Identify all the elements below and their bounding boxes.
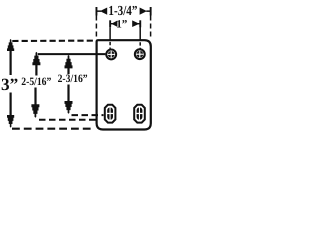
hole H2 (top-right bolt hole) [135,49,145,59]
dimension 1" : right tick [139,20,141,27]
dimension 2-3/16" : bottom reference dashed line to slot S1 [72,114,104,116]
plate outline [97,40,151,129]
extension line from 1" right tick down to hole H2 [139,25,141,49]
dimension 3" : down arrowhead [7,115,14,128]
dimension 1-3/4" : right arrowhead [140,8,147,15]
dimension 2-5/16" : down arrowhead [31,104,39,117]
dimension 3" : upper shaft [10,51,12,76]
dimension 1" : left tick [109,20,111,27]
dimension 1-3/4" : left tick [96,7,98,16]
svg-text:2-3/16”: 2-3/16” [58,73,88,85]
dimension 2-5/16" : upper shaft [35,65,37,76]
dimension 3" : lower shaft [10,93,12,116]
svg-text:1-3/4”: 1-3/4” [108,3,137,18]
dimension 3" : top reference dashed line (plate top extension) [12,40,96,43]
dimension 2-3/16" : up arrowhead [65,55,73,68]
svg-text:3”: 3” [1,75,18,94]
dimension 1-3/4" : line stub right [146,10,151,12]
extension line (dashed) from 1-3/4" right tick down to plate top-right [150,16,152,38]
dimension 1-3/4" : right tick [150,7,152,16]
slot S2 (bottom-right slotted hole) [134,105,145,123]
dimension 1" : left arrowhead [111,21,117,27]
dimension 2-5/16" : lower shaft [34,88,36,106]
dimension 1" : line stub left [110,23,113,24]
dimension 1" : right arrowhead [132,20,139,27]
dimension 2-3/16" : upper shaft [67,68,69,74]
top-hole centerline reference from 2-5/16" arrow to hole H1 [38,53,106,55]
dimension 2-3/16" : lower shaft [67,85,69,102]
extension line (dashed) from 1-3/4" left tick down to plate top-left [95,16,97,39]
slot S1 (bottom-left slotted hole) [105,105,116,123]
svg-text:2-5/16”: 2-5/16” [21,76,51,88]
dimension 3" : bottom reference dashed line (plate bottom extension) [12,128,94,130]
dimension 1-3/4" : line stub left [97,10,102,12]
dimension 1-3/4" : left arrowhead [100,8,107,15]
hole H1 (top-left bolt hole) [106,50,116,60]
extension line from 1" left tick down to hole H1 [109,27,111,49]
dimension 1" : line stub right [138,23,141,24]
dimension 2-5/16" : up arrowhead [32,52,40,65]
dimension 2-5/16" : bottom reference dashed line to plate left edge [39,119,96,121]
dimension 2-3/16" : down arrowhead [65,101,73,114]
svg-text:1”: 1” [116,19,128,31]
dimension 3" : up arrowhead [7,39,14,51]
